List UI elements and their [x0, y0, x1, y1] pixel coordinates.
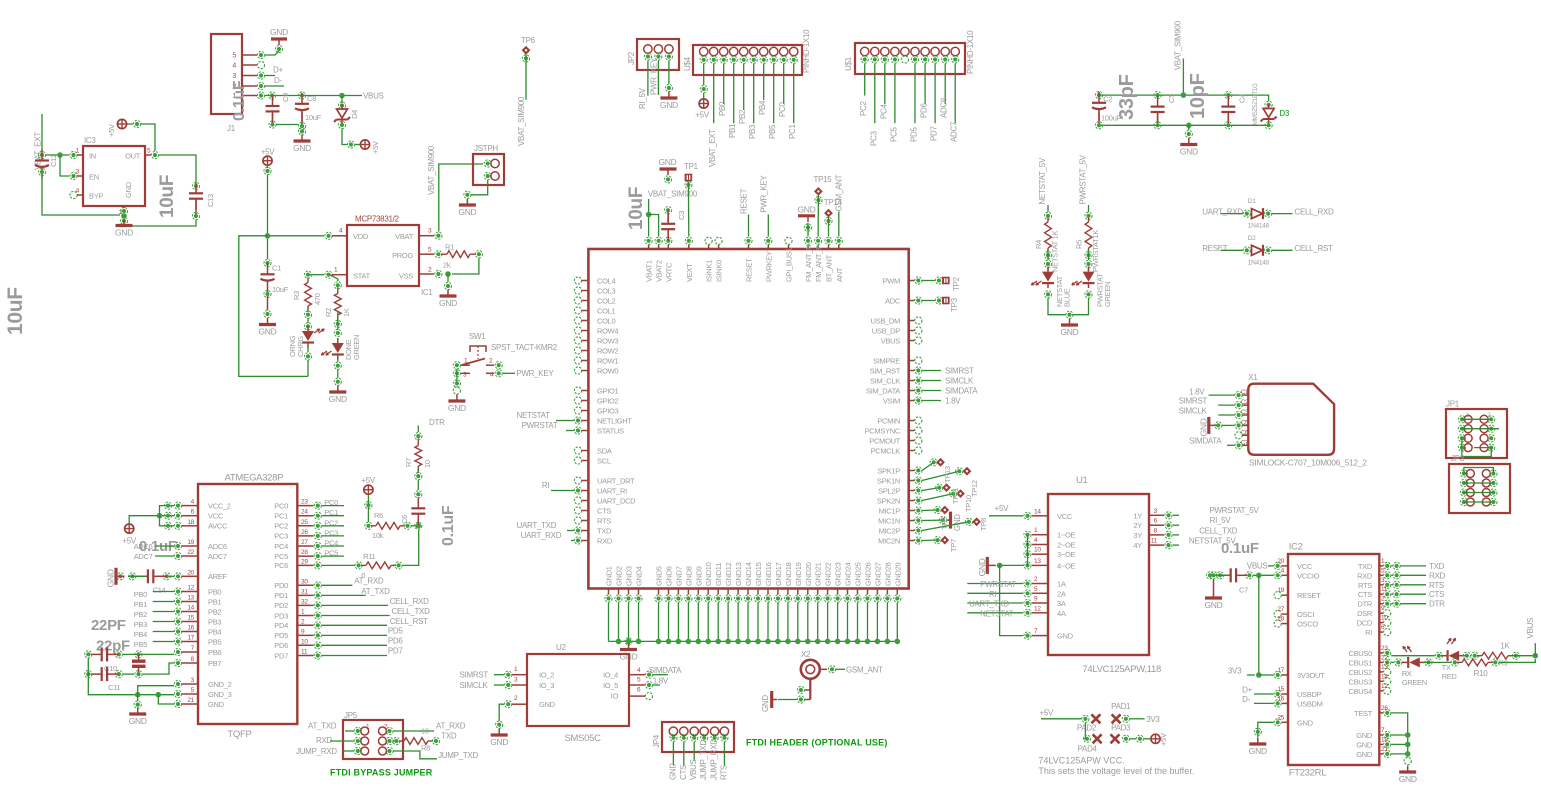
- wire PWRSTAT_5V stub: [1088, 205, 1090, 212]
- svg-text:MCP73831/2: MCP73831/2: [355, 215, 400, 224]
- wire AT_TXD jp5: [345, 730, 354, 732]
- wire JP4 JUMP_RXD: [714, 741, 716, 743]
- pin R5 top: [1085, 212, 1092, 219]
- wire PWRSTAT: [566, 430, 574, 432]
- svg-text:1.8V: 1.8V: [1189, 388, 1205, 397]
- net label PC0 (ATMEGA): [324, 498, 338, 507]
- test point TP13: [936, 458, 945, 467]
- net label TXD (JP5): [441, 732, 457, 741]
- svg-text:PWR_KEY: PWR_KEY: [516, 369, 554, 378]
- J1 pin numbers: [232, 53, 236, 101]
- svg-text:ADC6: ADC6: [208, 542, 227, 551]
- pin R4 top: [1044, 212, 1051, 219]
- svg-text:21: 21: [1381, 746, 1388, 753]
- svg-text:+5V: +5V: [1040, 709, 1055, 718]
- X1 pin stubs: [1242, 395, 1248, 445]
- test point TP14: [824, 198, 843, 225]
- svg-text:SDA: SDA: [597, 446, 612, 455]
- net label PC5 (ATMEGA): [324, 549, 338, 558]
- svg-text:13: 13: [1034, 558, 1041, 565]
- solder jumper PAD4 X: [1093, 734, 1102, 743]
- svg-text:VDD: VDD: [353, 232, 369, 241]
- net label GSM_ANT (X2): [846, 665, 883, 674]
- svg-text:RI_5V: RI_5V: [638, 87, 647, 109]
- svg-text:AT_TXD: AT_TXD: [361, 587, 390, 596]
- X1 pin C2: [1235, 402, 1242, 409]
- svg-text:VSIM: VSIM: [883, 396, 900, 405]
- net label CELL_RST: [1295, 244, 1333, 253]
- test point TP3: [942, 297, 959, 312]
- svg-text:PC2: PC2: [859, 100, 868, 116]
- wire R3 pins: [307, 318, 309, 323]
- wire UART_TXD: [567, 530, 574, 532]
- svg-text:12: 12: [1381, 683, 1388, 690]
- svg-text:UART_RXD: UART_RXD: [521, 531, 562, 540]
- net label ADC7: [134, 552, 153, 561]
- svg-text:3: 3: [232, 73, 236, 80]
- wire pad row2 right: [1130, 738, 1136, 740]
- net label VBAT_SIM900 (module): [648, 190, 698, 199]
- svg-text:GND19: GND19: [794, 562, 803, 586]
- svg-text:PD0: PD0: [274, 581, 288, 590]
- wire 1.8V U2: [653, 684, 660, 686]
- net label PC2 (ATMEGA): [324, 518, 338, 527]
- svg-text:C2: C2: [1103, 95, 1112, 104]
- antenna connector X2: [801, 650, 827, 679]
- wire U$4 PB0: [723, 64, 725, 105]
- wire JP2 PWR_KEY: [657, 61, 659, 96]
- svg-text:15: 15: [1277, 686, 1284, 693]
- J1 pin stubs: [242, 55, 257, 96]
- wire +5V down: [267, 165, 269, 168]
- note line 2: [1038, 766, 1194, 776]
- svg-text:26: 26: [301, 529, 308, 536]
- svg-text:EN: EN: [89, 173, 99, 182]
- power symbol +5V (D4): [360, 140, 380, 154]
- switch SW1: [461, 332, 558, 373]
- svg-text:GND: GND: [293, 143, 311, 153]
- pin TP11: [936, 484, 943, 491]
- net label VBAT_SIM900 (rail): [1174, 20, 1183, 70]
- svg-text:PAD1: PAD1: [1111, 702, 1131, 711]
- svg-text:COL0: COL0: [597, 316, 616, 325]
- svg-text:PCMOUT: PCMOUT: [869, 436, 900, 445]
- svg-text:SIM_CLK: SIM_CLK: [870, 376, 900, 385]
- wire STAT to R2: [330, 275, 338, 281]
- label PAD1: [1111, 702, 1131, 711]
- pin GND bus sym: [625, 638, 632, 645]
- X1 pin C3: [1235, 411, 1242, 418]
- U1 right pins: [1165, 512, 1172, 549]
- pin SW1 gnd: [453, 380, 460, 394]
- svg-text:GND: GND: [1399, 774, 1417, 784]
- svg-text:GND26: GND26: [864, 562, 873, 586]
- pin JP2 gnd: [665, 84, 672, 91]
- svg-text:TQFP: TQFP: [227, 729, 251, 740]
- JP1 wire row2: [1462, 428, 1499, 430]
- net label UART_RXD: [1202, 207, 1243, 216]
- svg-text:GND23: GND23: [834, 562, 843, 586]
- LED CHRG orange: [288, 326, 324, 357]
- junction rail vbat: [1181, 92, 1187, 98]
- svg-text:GND15: GND15: [754, 562, 763, 586]
- svg-text:3V3: 3V3: [1228, 667, 1242, 676]
- junction vcc: [157, 513, 163, 519]
- wire pwrstat led gnd: [1072, 298, 1089, 315]
- svg-text:GND18: GND18: [784, 562, 793, 586]
- wire STAT to R3: [308, 274, 324, 276]
- wire PD5 net: [322, 634, 387, 636]
- pin TP9: [934, 506, 941, 513]
- svg-text:20: 20: [1277, 558, 1284, 565]
- wire U$1 ADC7: [954, 64, 956, 124]
- svg-text:ISINK1: ISINK1: [705, 260, 714, 282]
- X1 pin names: [1241, 390, 1249, 446]
- big value label 10uF for C3: [626, 187, 647, 230]
- diode D1: [1243, 198, 1271, 230]
- JP3 wire row3: [1464, 492, 1493, 494]
- JP3 row 1 pins: [1460, 470, 1497, 477]
- svg-text:2~OE: 2~OE: [1057, 541, 1075, 550]
- U2 pin IO open: [629, 693, 653, 700]
- net label +5V (PAD): [1040, 709, 1055, 718]
- wire PB7 net: [143, 663, 174, 674]
- test point TP15: [814, 175, 833, 204]
- net label RTS (IC2): [1429, 581, 1444, 590]
- svg-text:+5V: +5V: [107, 124, 116, 137]
- wire RX to R10: [1423, 661, 1451, 663]
- net label PWRSTAT (module): [522, 421, 558, 430]
- svg-text:VBUS: VBUS: [1247, 562, 1268, 571]
- IC3 pin BYP open: [70, 191, 83, 198]
- big value label 0.1uF for C14: [139, 538, 177, 555]
- wire ANT top: [838, 211, 840, 236]
- svg-text:TXD: TXD: [441, 732, 457, 741]
- svg-text:11: 11: [1151, 538, 1158, 545]
- svg-text:CTS: CTS: [1429, 590, 1444, 599]
- wire U$4 PB5: [773, 64, 775, 124]
- wire 3V3 pad: [1130, 718, 1145, 720]
- wire OUT to C13: [159, 155, 196, 182]
- wire vcc_2 branch: [160, 506, 175, 516]
- svg-text:RI: RI: [989, 590, 996, 599]
- svg-text:PB1: PB1: [134, 600, 147, 609]
- wire D1 to CELL_RXD: [1272, 213, 1293, 215]
- net label PWR_KEY (module top): [760, 175, 769, 213]
- svg-text:RESET: RESET: [1202, 244, 1228, 253]
- wire +5V pad: [1041, 718, 1082, 720]
- svg-text:USB_DM: USB_DM: [871, 316, 901, 325]
- wire PB2: [153, 611, 174, 613]
- svg-text:PD5: PD5: [388, 627, 404, 636]
- wire DTR IC2 b: [1401, 603, 1426, 605]
- pin R9 right: [1512, 652, 1519, 659]
- svg-text:25: 25: [301, 519, 308, 526]
- svg-text:PINHD-1X10: PINHD-1X10: [966, 30, 975, 74]
- wire SPK/MIC row 20: [922, 471, 959, 480]
- junction gnd right 753.9: [1405, 751, 1411, 757]
- svg-text:VBUS: VBUS: [1526, 618, 1535, 639]
- svg-text:22: 22: [1381, 654, 1388, 661]
- svg-text:GND: GND: [115, 228, 133, 238]
- svg-text:PC3: PC3: [869, 130, 878, 146]
- wire VBUS IC2: [1268, 565, 1274, 567]
- svg-text:ADC7: ADC7: [134, 552, 153, 561]
- svg-text:14: 14: [1034, 508, 1041, 515]
- svg-text:GND2: GND2: [615, 566, 624, 586]
- wire SIMCLK X1: [1218, 414, 1234, 416]
- wire C9 to C8 gnd: [276, 124, 298, 126]
- IC3 pin OUT: [145, 151, 159, 158]
- svg-text:10uF: 10uF: [305, 113, 322, 122]
- svg-text:FTDI BYPASS JUMPER: FTDI BYPASS JUMPER: [330, 768, 433, 778]
- svg-text:This sets the voltage level of: This sets the voltage level of the buffe…: [1038, 766, 1194, 776]
- svg-text:CTS: CTS: [679, 765, 688, 780]
- pin C7 gnd: [1206, 572, 1217, 579]
- svg-text:10pF: 10pF: [1187, 73, 1209, 119]
- wire SIMDATA module: [922, 390, 941, 392]
- svg-text:UART_RXD: UART_RXD: [1202, 207, 1243, 216]
- net label RTS (JP4): [719, 765, 728, 780]
- svg-text:U$1: U$1: [844, 56, 853, 71]
- svg-text:PROG: PROG: [392, 251, 413, 260]
- wire 3Y stub: [1173, 534, 1179, 536]
- wire PB4: [153, 631, 174, 633]
- svg-text:CBUS3: CBUS3: [1348, 677, 1372, 686]
- svg-text:10: 10: [301, 638, 308, 645]
- ground symbol X1 (rotated): [1198, 417, 1217, 437]
- wire TEST gnd: [1391, 713, 1408, 757]
- wire ADC7: [155, 555, 174, 557]
- svg-text:10: 10: [421, 727, 429, 736]
- svg-text:PB4: PB4: [208, 627, 221, 636]
- capacitor C4: [1221, 92, 1246, 129]
- svg-text:23: 23: [1381, 645, 1388, 652]
- svg-text:19: 19: [187, 539, 194, 546]
- svg-text:GND8: GND8: [684, 566, 693, 586]
- svg-text:RXD: RXD: [1357, 571, 1373, 580]
- svg-text:PWM: PWM: [883, 276, 900, 285]
- svg-text:NETLIGHT: NETLIGHT: [597, 416, 632, 425]
- JP1 row 4 pins: [1458, 444, 1494, 451]
- wire LED chrg bottom: [307, 360, 309, 376]
- svg-text:AT_RXD: AT_RXD: [354, 577, 384, 586]
- pin under LED chrg: [304, 353, 311, 360]
- wire RTS IC2 b: [1401, 584, 1426, 586]
- test point TP7: [940, 536, 949, 545]
- net label ADC6 (U$1): [940, 97, 949, 118]
- wire RESET to D2: [1221, 249, 1243, 251]
- net label SIMDATA (U2): [649, 666, 682, 675]
- IC3 pin IN: [70, 151, 83, 158]
- svg-text:GND: GND: [106, 569, 116, 587]
- LED PWRSTAT GREEN: [1072, 267, 1112, 307]
- svg-text:PWRSTAT1K: PWRSTAT1K: [1091, 230, 1100, 272]
- svg-text:RX: RX: [1402, 669, 1412, 678]
- svg-text:20: 20: [187, 569, 194, 576]
- wire U$4 PB1: [733, 64, 735, 124]
- U$1 pads: [861, 47, 960, 55]
- J1 pin 3: [257, 72, 264, 79]
- U2 pin GND: [505, 701, 527, 708]
- svg-text:C7: C7: [1239, 586, 1248, 595]
- net label PB4 (U$4): [758, 100, 767, 115]
- wire PWRSTAT U1: [967, 583, 1023, 585]
- svg-text:SIMPRE: SIMPRE: [873, 356, 900, 365]
- svg-text:TP7: TP7: [949, 539, 958, 552]
- JP5 row 3 pads: [361, 747, 387, 755]
- svg-text:13: 13: [1381, 664, 1388, 671]
- wire AREF: [157, 575, 174, 577]
- GSM module left pin names: [597, 276, 636, 545]
- svg-text:COL2: COL2: [597, 296, 616, 305]
- pin C8 gnd: [298, 128, 305, 135]
- svg-text:PB2: PB2: [134, 610, 147, 619]
- pin pad row1: [1082, 715, 1089, 722]
- svg-text:PD7: PD7: [274, 651, 288, 660]
- svg-text:R8: R8: [421, 744, 430, 753]
- net label PB0: [134, 590, 147, 599]
- svg-text:1N4148: 1N4148: [1248, 259, 1270, 266]
- svg-text:RXD: RXD: [1429, 571, 1446, 580]
- svg-text:AT_TXD: AT_TXD: [308, 722, 337, 731]
- U$1 pins: [861, 56, 959, 63]
- svg-text:10uF: 10uF: [272, 285, 289, 294]
- ATMEGA left pins: [174, 502, 181, 708]
- U1 left pins: [1024, 512, 1031, 639]
- svg-text:GPIO3: GPIO3: [597, 406, 619, 415]
- test point TP12: [963, 467, 972, 476]
- svg-text:ANT: ANT: [835, 267, 844, 282]
- svg-text:GND: GND: [1297, 718, 1314, 727]
- svg-text:4: 4: [232, 63, 236, 70]
- svg-text:PC4: PC4: [879, 103, 888, 119]
- JP5 row 2 pads: [361, 737, 387, 745]
- svg-text:GND: GND: [1198, 418, 1208, 436]
- svg-text:PD4: PD4: [274, 621, 288, 630]
- IC3 pin numbers: [76, 148, 151, 217]
- wire SIMCLK module: [922, 380, 941, 382]
- header JP5 body: [343, 711, 403, 759]
- wire JP4 GND: [672, 742, 674, 766]
- wire RXD IC2 b: [1401, 574, 1426, 576]
- wire D+ stub: [265, 75, 275, 77]
- svg-text:IO: IO: [611, 692, 619, 701]
- big value label 22pF: [96, 638, 130, 655]
- junction OE gnd: [997, 563, 1003, 569]
- wire +5V to R6: [367, 494, 369, 522]
- net label PB3: [134, 620, 147, 629]
- svg-text:PB2: PB2: [208, 607, 221, 616]
- svg-text:JP5: JP5: [344, 711, 358, 720]
- svg-text:10uF: 10uF: [4, 287, 27, 335]
- net label DTR (below): [429, 418, 445, 427]
- svg-text:GND: GND: [668, 763, 677, 780]
- net label D-: [274, 76, 282, 85]
- wire avcc branch: [160, 516, 175, 526]
- svg-text:IO_2: IO_2: [539, 671, 554, 680]
- capacitor C5: [1151, 92, 1176, 129]
- net label PC3 (U$1): [869, 130, 878, 146]
- wire SIMRST module: [922, 370, 941, 372]
- test point TP6: [521, 36, 536, 62]
- U2 pin numbers: [514, 666, 641, 702]
- svg-text:SPK1N: SPK1N: [877, 476, 900, 485]
- wire jp5 row1 right: [394, 730, 435, 732]
- test point TP9: [940, 506, 949, 515]
- svg-text:10uF: 10uF: [157, 175, 178, 218]
- wire JP4 JUMP_TXD: [703, 741, 705, 743]
- net label PD7 (ATMEGA): [388, 647, 404, 656]
- wire 2Y stub: [1173, 524, 1179, 526]
- svg-text:VBAT: VBAT: [395, 232, 414, 241]
- pins R9 left: [1463, 652, 1478, 659]
- net label +5V (U1): [995, 504, 1010, 513]
- pin X2 shield2: [797, 696, 804, 703]
- net label PB5: [134, 640, 147, 649]
- svg-text:1A: 1A: [1057, 580, 1066, 589]
- svg-text:PB3: PB3: [208, 617, 221, 626]
- wire PC6 to R11: [322, 564, 355, 566]
- net label RXD (JP5): [316, 736, 333, 745]
- JP5 row 1 pins: [354, 727, 393, 734]
- net label PC4 (U$1): [879, 103, 888, 119]
- svg-text:16: 16: [187, 625, 194, 632]
- svg-text:RTS: RTS: [1429, 581, 1444, 590]
- svg-text:VRTC: VRTC: [664, 262, 673, 282]
- wire pin to +5V D4: [355, 144, 360, 146]
- svg-text:RESET: RESET: [740, 188, 749, 214]
- wire 1.8V X1: [1209, 394, 1235, 396]
- wire C14 left: [128, 575, 146, 577]
- svg-text:GND: GND: [1249, 746, 1267, 756]
- svg-text:470: 470: [313, 293, 322, 305]
- JSTPH pin 2: [484, 159, 499, 167]
- wire SPK/MIC row 26: [922, 539, 938, 541]
- svg-text:IC3: IC3: [84, 136, 96, 145]
- J1 pin 5: [257, 51, 264, 58]
- wire netstat led gnd: [1048, 298, 1066, 315]
- big value label 0.1uF for C7: [1221, 540, 1259, 557]
- wire VBAT2: [649, 215, 659, 237]
- pin MIC1N gnd: [939, 517, 946, 524]
- svg-text:STATUS: STATUS: [597, 426, 624, 435]
- svg-text:UART_TXD: UART_TXD: [969, 600, 1009, 609]
- power symbol +5V (U$4): [695, 99, 710, 120]
- net label TXD (IC2): [1429, 562, 1445, 571]
- svg-text:PD5: PD5: [910, 126, 919, 142]
- JP2 pins: [644, 53, 672, 60]
- svg-text:ROW1: ROW1: [597, 356, 618, 365]
- net label 3V3 (IC2): [1228, 667, 1242, 676]
- wire +5V U1: [989, 515, 1023, 517]
- svg-text:PAD2: PAD2: [1077, 724, 1097, 733]
- svg-text:VBUS: VBUS: [689, 759, 698, 780]
- net label PC1 (ATMEGA): [324, 508, 338, 517]
- svg-text:+5V: +5V: [261, 148, 276, 157]
- svg-text:PD2: PD2: [274, 601, 288, 610]
- svg-text:OSCI: OSCI: [1297, 610, 1314, 619]
- wire PC3 stub: [322, 535, 344, 537]
- big value label 10uF for C12: [4, 287, 27, 335]
- ground symbol JP2: [660, 92, 678, 111]
- svg-text:GND: GND: [798, 205, 816, 215]
- svg-text:COL1: COL1: [597, 306, 616, 315]
- pin R1 right: [475, 251, 482, 258]
- wire UART_RXD: [571, 540, 574, 542]
- wire rail gnd: [1188, 125, 1190, 130]
- pins under R2: [334, 320, 341, 336]
